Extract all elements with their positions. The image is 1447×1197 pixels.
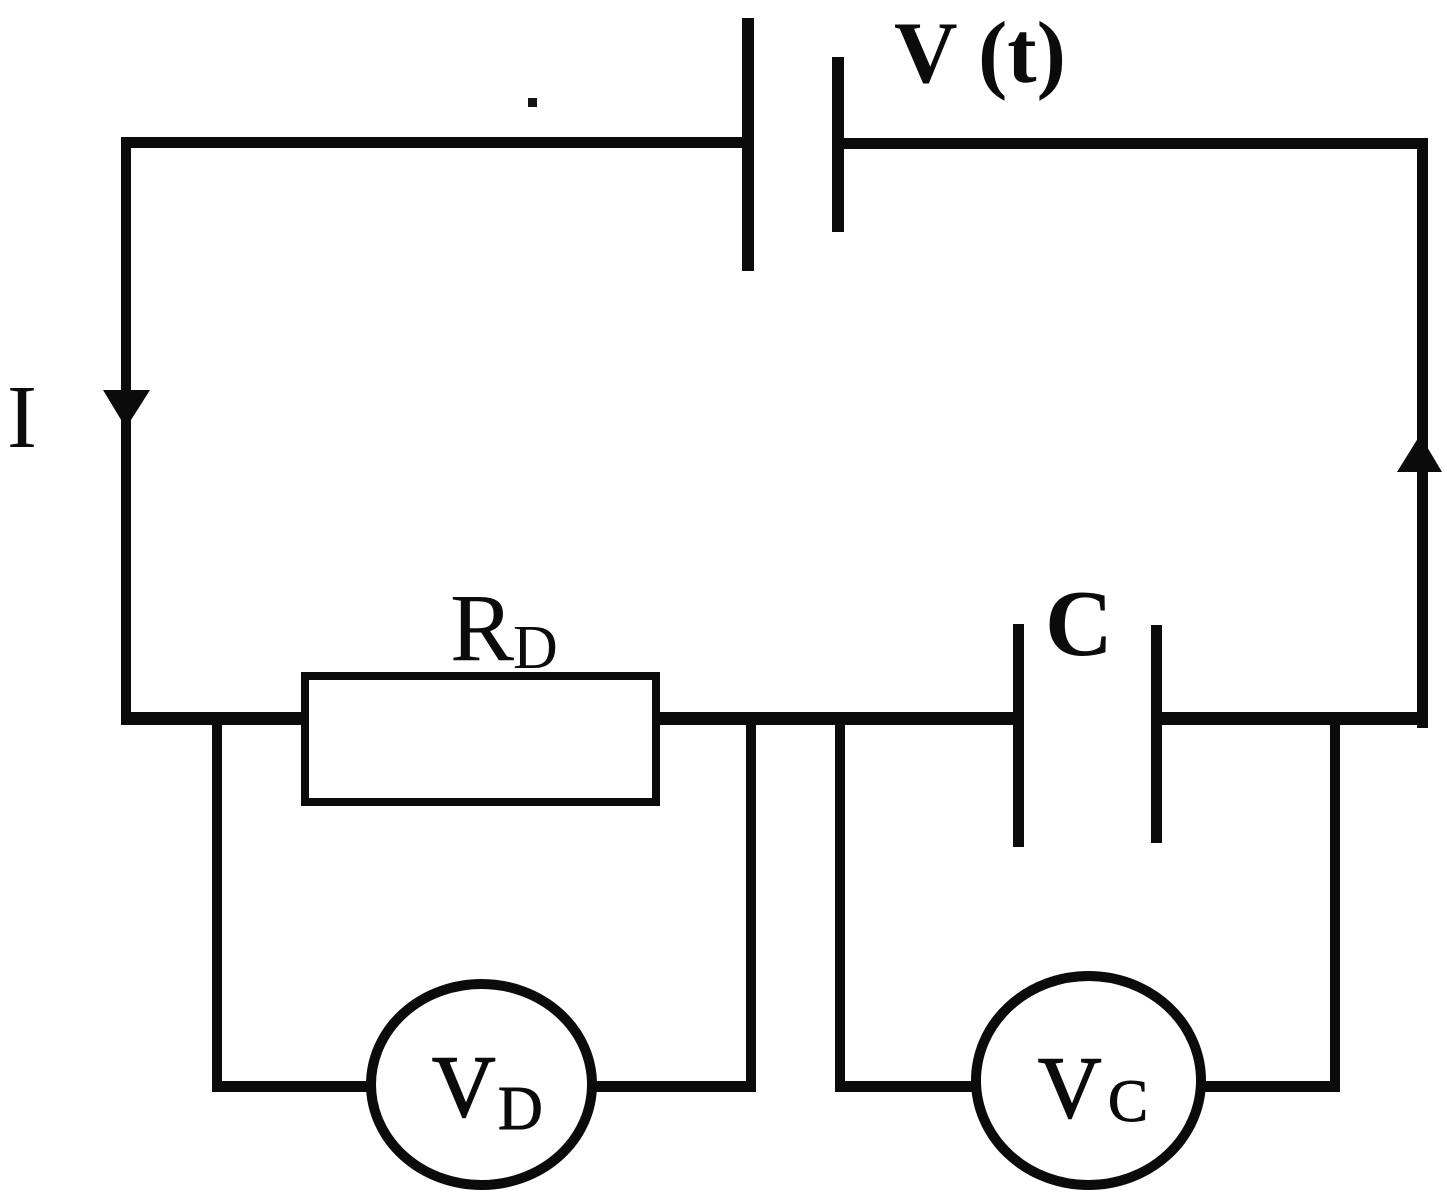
svg-text:I: I	[7, 368, 37, 467]
battery V(t) left plate (long)	[742, 18, 754, 271]
capacitor C right plate	[1151, 625, 1162, 843]
voltmeter VD circle	[371, 984, 592, 1185]
wire drop VC right	[1330, 714, 1340, 1091]
wire bottom VC right	[1200, 1081, 1340, 1092]
wire drop VC left	[835, 714, 845, 1091]
resistor RD box	[305, 676, 656, 802]
wire middle left segment	[121, 712, 311, 725]
wire drop VD left	[212, 714, 222, 1091]
svg-text:C: C	[1045, 572, 1113, 676]
arrow upward right branch	[1397, 435, 1442, 472]
svg-text:D: D	[498, 1075, 543, 1143]
svg-text:R: R	[450, 574, 514, 681]
wire left vertical	[121, 137, 131, 725]
wire bottom VD right	[592, 1081, 756, 1092]
voltmeter VC circle	[976, 976, 1201, 1185]
wire middle right segment	[1155, 712, 1428, 725]
wire middle center segment	[656, 712, 1020, 725]
wire top-left horizontal	[121, 137, 748, 148]
battery V(t) right plate (short)	[832, 57, 844, 232]
capacitor C left plate	[1013, 624, 1024, 847]
wire bottom VD left	[212, 1081, 372, 1092]
svg-text:D: D	[513, 614, 558, 682]
wire drop VD right	[746, 714, 756, 1091]
wire right vertical	[1417, 138, 1428, 728]
wire top-right horizontal	[840, 138, 1428, 149]
wire bottom VC left	[835, 1081, 976, 1092]
arrow current I downward	[103, 390, 150, 428]
svg-text:V (t): V (t)	[894, 5, 1066, 102]
svg-text:V: V	[1038, 1040, 1102, 1137]
svg-text:V: V	[432, 1039, 496, 1136]
svg-text:C: C	[1108, 1068, 1148, 1134]
